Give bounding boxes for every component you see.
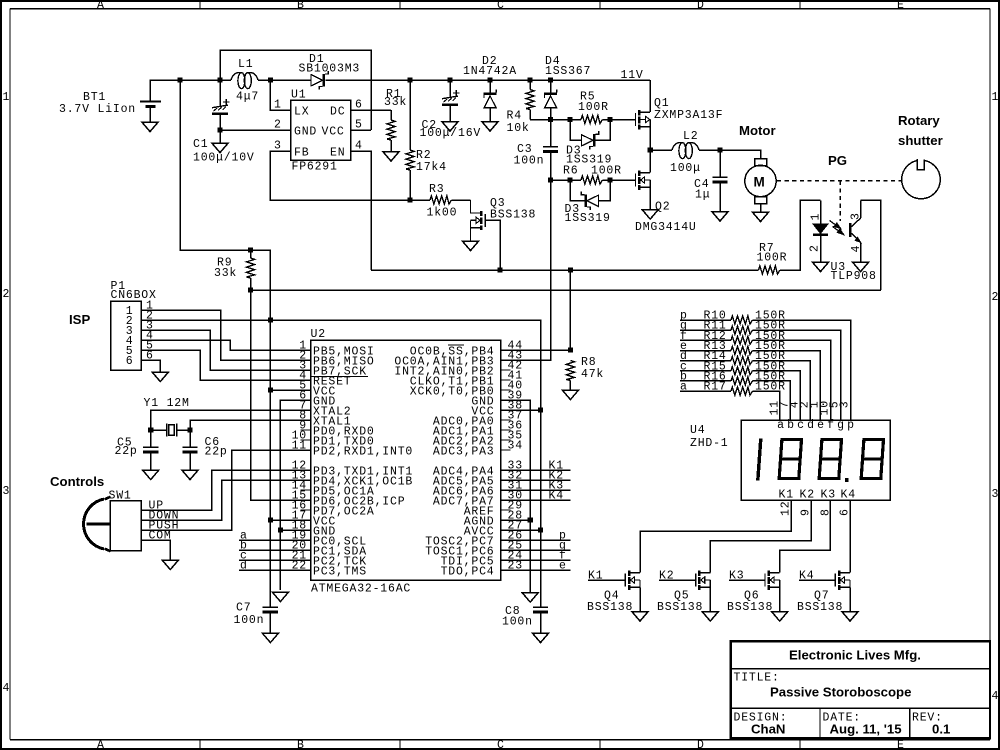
svg-text:LX: LX <box>294 106 309 119</box>
svg-text:e: e <box>559 560 567 573</box>
svg-text:4: 4 <box>992 690 1000 703</box>
svg-text:150R: 150R <box>755 381 786 394</box>
svg-text:4: 4 <box>850 245 863 253</box>
wire U1 pin2 <box>220 129 291 131</box>
wire U1 top loop <box>220 50 371 130</box>
wire DOWN to PD4 <box>141 480 311 520</box>
net label a <box>239 530 311 543</box>
resistor R1 <box>387 110 395 152</box>
svg-text:47k: 47k <box>581 368 604 381</box>
junction VCC P1 <box>268 317 273 322</box>
svg-text:DMG3414U: DMG3414U <box>635 221 697 234</box>
wire K4 <box>849 500 851 573</box>
svg-text:TITLE:: TITLE: <box>734 672 780 685</box>
IC U2 box <box>311 340 501 580</box>
wire K3 <box>780 500 831 573</box>
junction R9 bottom <box>248 287 253 292</box>
svg-text:d: d <box>240 560 248 573</box>
wire UP to INT1 <box>141 470 311 510</box>
svg-text:D: D <box>697 0 705 12</box>
ground C5 <box>143 470 159 480</box>
junction VCC38 <box>538 407 543 412</box>
junction L2 node <box>648 147 653 152</box>
wire Q2 source <box>649 187 651 209</box>
resistor R5 <box>551 116 636 124</box>
svg-text:VCC: VCC <box>322 126 345 139</box>
svg-text:R6: R6 <box>563 165 578 178</box>
svg-text:BSS138: BSS138 <box>797 601 843 614</box>
switch labels <box>149 500 180 543</box>
ground GND39 <box>522 593 538 603</box>
svg-text:Aug. 11, '15: Aug. 11, '15 <box>830 722 902 737</box>
transistor Q5 <box>659 571 710 612</box>
transistor Q6 <box>729 571 780 612</box>
svg-text:R3: R3 <box>429 183 444 196</box>
wire VCC38 down to C8 <box>501 410 541 607</box>
svg-text:K1: K1 <box>779 489 794 502</box>
svg-text:d: d <box>807 419 815 432</box>
svg-text:R4: R4 <box>507 110 522 123</box>
capacitor C5 <box>143 447 158 470</box>
P1 external pin numbers <box>146 300 154 363</box>
resistor R16 <box>680 370 790 420</box>
junction EN Q3gate <box>497 267 502 272</box>
wire AGND <box>501 519 531 521</box>
ground Q2 <box>642 210 658 220</box>
junction R8 PB4 <box>568 347 573 352</box>
svg-text:1SS367: 1SS367 <box>545 65 591 78</box>
U2 left pin numbers <box>292 340 307 573</box>
svg-text:ADC3,PA3: ADC3,PA3 <box>433 445 495 458</box>
svg-text:3: 3 <box>3 485 11 498</box>
svg-text:1N4742A: 1N4742A <box>463 65 517 78</box>
wire P1.6 GND <box>141 360 160 372</box>
U1 pin names <box>294 106 345 160</box>
svg-text:U2: U2 <box>311 328 326 341</box>
junction R5 right <box>607 117 612 122</box>
resistor R6 <box>551 176 636 184</box>
wire AVCC <box>501 529 541 531</box>
wire PG to ICP <box>251 290 311 500</box>
svg-text:D: D <box>697 739 705 750</box>
net label g <box>501 540 571 553</box>
svg-text:U4: U4 <box>690 424 705 437</box>
ground C1 <box>212 143 228 153</box>
svg-text:C: C <box>497 739 505 750</box>
motor M <box>745 159 776 213</box>
wire AIN1 sense <box>501 180 551 360</box>
net label K2 <box>501 470 571 483</box>
svg-text:3: 3 <box>839 401 852 409</box>
net label b <box>239 540 311 553</box>
wire VCC vertical <box>269 320 271 607</box>
svg-text:22p: 22p <box>205 446 228 459</box>
inductor L1 <box>231 72 258 88</box>
ground GND net <box>272 592 288 602</box>
wire XTAL2 <box>151 410 311 447</box>
ground U3 emitter <box>852 262 868 272</box>
svg-text:L2: L2 <box>683 130 698 143</box>
svg-text:A: A <box>97 739 105 750</box>
svg-text:BSS138: BSS138 <box>587 601 633 614</box>
connector P1 box <box>111 301 142 370</box>
svg-text:100n: 100n <box>514 155 545 168</box>
wire battery rail <box>150 80 650 112</box>
svg-text:Controls: Controls <box>50 474 104 489</box>
junction battery node <box>177 77 182 82</box>
display decimal point <box>845 478 849 482</box>
svg-text:5: 5 <box>355 119 363 132</box>
wire K2 <box>710 500 811 573</box>
capacitor C8 <box>533 607 548 633</box>
ground C7 <box>262 633 278 643</box>
diode D3 upper <box>570 120 610 150</box>
transistor Q2 <box>636 171 651 190</box>
svg-text:2: 2 <box>3 288 11 301</box>
svg-text:ISP: ISP <box>69 312 90 327</box>
svg-text:GND: GND <box>294 126 317 139</box>
capacitor C6 <box>182 447 197 470</box>
svg-text:p: p <box>847 419 855 432</box>
capacitor C1 <box>212 80 230 143</box>
IC U1 box <box>291 100 351 160</box>
junction C2 top <box>447 77 452 82</box>
transistor Q1 <box>636 110 651 129</box>
resistor R9 <box>247 250 255 290</box>
opto U3 light arrows <box>830 221 844 235</box>
svg-text:100μ: 100μ <box>670 162 701 175</box>
svg-text:17k4: 17k4 <box>416 161 447 174</box>
svg-text:BSS138: BSS138 <box>727 601 773 614</box>
wire P1.3 SCK <box>141 330 311 370</box>
overline SS <box>448 344 464 346</box>
svg-text:EN: EN <box>330 147 345 160</box>
wire PB4 to R8 <box>501 349 571 351</box>
junction R4 top <box>527 77 532 82</box>
junction R2 top <box>407 77 412 82</box>
ground Q6 <box>772 612 788 622</box>
net label K4 <box>501 490 571 503</box>
junction C4 node <box>717 147 722 152</box>
ground motor <box>752 212 768 222</box>
wire U1 pin4 EN <box>351 151 371 270</box>
ground C6 <box>182 470 198 480</box>
svg-text:PG: PG <box>828 153 847 168</box>
svg-text:C: C <box>497 0 505 12</box>
ground P1 <box>152 372 168 382</box>
svg-text:100μ/16V: 100μ/16V <box>420 127 482 140</box>
wire VCC riser <box>251 250 271 320</box>
resistor R10 <box>680 310 851 421</box>
ground COM <box>162 560 178 570</box>
svg-text:Electronic Lives Mfg.: Electronic Lives Mfg. <box>789 648 921 663</box>
svg-text:TDO,PC4: TDO,PC4 <box>441 565 495 578</box>
ground Q7 <box>842 612 858 622</box>
svg-text:b: b <box>787 419 795 432</box>
svg-text:4: 4 <box>355 140 363 153</box>
junction C1 gnd wire <box>217 127 222 132</box>
svg-text:3.7V LiIon: 3.7V LiIon <box>59 103 136 116</box>
svg-text:K3: K3 <box>821 489 836 502</box>
junction R5 left <box>567 117 572 122</box>
junction GND pin18 <box>278 527 283 532</box>
transistor Q3 <box>470 200 500 270</box>
ground U3 LED <box>812 262 828 272</box>
ground C8 <box>532 633 548 643</box>
svg-text:ZXMP3A13F: ZXMP3A13F <box>654 109 723 122</box>
junction AVCC <box>538 527 543 532</box>
capacitor C2 <box>442 80 460 122</box>
wire U1 pin1 <box>270 80 290 110</box>
svg-text:K2: K2 <box>659 570 674 583</box>
net label e <box>501 560 571 573</box>
svg-text:K2: K2 <box>800 489 815 502</box>
svg-text:1: 1 <box>992 91 1000 104</box>
svg-text:PD2,RXD1,INT0: PD2,RXD1,INT0 <box>313 445 413 458</box>
wire P1.1 MISO <box>141 310 311 360</box>
dashed shaft link <box>777 181 901 221</box>
display digit 8a <box>779 440 801 479</box>
svg-text:100μ/10V: 100μ/10V <box>193 152 255 165</box>
crystal Y1 <box>167 424 177 437</box>
resistor R15 <box>680 360 800 420</box>
resistor R8 <box>566 270 574 390</box>
U2 right pin stubs <box>501 350 511 570</box>
wire PUSH to INT0 <box>141 450 311 530</box>
capacitor C3 <box>543 120 558 181</box>
svg-text:g: g <box>837 419 845 432</box>
svg-text:E: E <box>897 739 905 750</box>
svg-text:K4: K4 <box>841 489 856 502</box>
svg-text:100n: 100n <box>234 614 265 627</box>
svg-text:33k: 33k <box>384 96 407 109</box>
ground C2 <box>442 122 458 132</box>
ground C4 <box>712 212 728 222</box>
resistor R3 <box>410 196 471 204</box>
diode D4 zener <box>544 80 557 120</box>
svg-text:Motor: Motor <box>739 123 776 138</box>
transistor Q7 <box>799 571 850 612</box>
diode D3 lower <box>570 180 610 210</box>
junction R9 top <box>248 247 253 252</box>
wire crystal right <box>177 429 191 431</box>
wire VCC row <box>270 320 540 410</box>
svg-text:Rotary: Rotary <box>898 113 940 128</box>
svg-text:ChaN: ChaN <box>751 722 785 737</box>
junction XTAL2 <box>148 427 153 432</box>
svg-text:2: 2 <box>274 119 282 132</box>
svg-text:100n: 100n <box>502 616 533 629</box>
U2 right pin numbers <box>508 340 523 573</box>
wire P1.4 MOSI <box>141 340 311 350</box>
svg-text:PC3,TMS: PC3,TMS <box>313 565 367 578</box>
wire P1.5 RESET <box>141 350 311 380</box>
junction R6 left <box>567 177 572 182</box>
overline PB7 SCK underline <box>312 375 369 377</box>
rotary shutter <box>902 158 941 198</box>
junction R6 right <box>607 177 612 182</box>
ground battery <box>142 122 158 132</box>
svg-text:1k00: 1k00 <box>427 207 458 220</box>
svg-text:22p: 22p <box>115 445 138 458</box>
resistor R12 <box>680 330 831 420</box>
wire P1.2 VCC <box>141 319 270 321</box>
svg-text:BSS138: BSS138 <box>657 601 703 614</box>
svg-text:ATMEGA32-16AC: ATMEGA32-16AC <box>311 583 411 596</box>
svg-text:K4: K4 <box>799 570 814 583</box>
wire GND pin6 vertical <box>280 400 310 590</box>
svg-text:e: e <box>817 419 825 432</box>
junction R2 bottom FB <box>407 197 412 202</box>
pin number U3.1 <box>810 213 823 221</box>
svg-text:C7: C7 <box>236 602 251 615</box>
svg-text:ZHD-1: ZHD-1 <box>690 437 729 450</box>
svg-text:FP6291: FP6291 <box>292 161 338 174</box>
svg-text:0.1: 0.1 <box>932 722 950 737</box>
wire VCC pin5 <box>270 389 310 391</box>
wire GND39 down <box>501 400 531 593</box>
junction XTAL1 <box>187 427 192 432</box>
svg-text:Passive Storoboscope: Passive Storoboscope <box>770 685 911 700</box>
svg-text:6: 6 <box>126 355 134 368</box>
svg-text:U1: U1 <box>291 89 306 102</box>
svg-text:1: 1 <box>274 99 282 112</box>
svg-text:100R: 100R <box>591 165 622 178</box>
resistor R4 <box>526 80 551 120</box>
diode D1 schottky <box>311 71 328 90</box>
opto U3 LED <box>813 200 828 262</box>
display U4 pin numbers top <box>769 400 852 415</box>
svg-text:a: a <box>777 419 785 432</box>
net label f <box>501 550 571 563</box>
wire motor feed <box>720 150 761 159</box>
svg-text:1: 1 <box>810 213 823 221</box>
pin number U3.3 <box>849 212 862 220</box>
display digit 1 <box>758 439 761 481</box>
svg-text:34: 34 <box>508 440 523 453</box>
svg-text:Y1 12M: Y1 12M <box>144 397 190 410</box>
svg-text:4μ7: 4μ7 <box>236 91 259 104</box>
svg-text:100R: 100R <box>578 101 609 114</box>
svg-text:M: M <box>754 175 765 190</box>
display digit 8c <box>861 440 883 479</box>
wire COM <box>141 540 170 560</box>
capacitor C7 <box>263 607 278 633</box>
ground Q3 <box>462 241 478 251</box>
svg-text:a: a <box>680 381 688 394</box>
svg-text:100R: 100R <box>757 252 788 265</box>
svg-text:B: B <box>297 739 305 750</box>
svg-text:1SS319: 1SS319 <box>565 212 611 225</box>
svg-text:A: A <box>97 0 105 12</box>
inductor L2 <box>650 142 720 158</box>
U2 right pin names <box>394 345 494 578</box>
junction D4 top <box>548 77 553 82</box>
display segment letters <box>777 419 855 432</box>
display U4 pin numbers bottom <box>779 501 851 516</box>
switch SW1 paddle <box>84 497 111 551</box>
display digit 8b <box>819 440 841 479</box>
junction VCC pin17 <box>268 517 273 522</box>
pin number U3.4 <box>850 245 863 253</box>
svg-text:L1: L1 <box>238 58 253 71</box>
transistor Q4 <box>588 571 640 612</box>
junction C1 node <box>217 77 222 82</box>
junction D2 top <box>487 77 492 82</box>
svg-text:K3: K3 <box>729 570 744 583</box>
svg-text:DC: DC <box>330 106 345 119</box>
diode D2 zener <box>484 80 497 122</box>
svg-text:SB1003M3: SB1003M3 <box>299 63 361 76</box>
resistor R17 <box>680 381 786 420</box>
display K labels <box>779 489 856 502</box>
net label p <box>501 530 571 543</box>
wire VCC pin17 <box>270 519 310 521</box>
wire K1 <box>640 500 791 573</box>
svg-text:c: c <box>797 419 805 432</box>
svg-text:K4: K4 <box>549 490 564 503</box>
resistor R13 <box>680 340 820 420</box>
svg-text:4: 4 <box>3 682 11 695</box>
switch SW1 box <box>110 501 141 551</box>
svg-text:BSS138: BSS138 <box>490 209 536 222</box>
junction EN R8 <box>568 267 573 272</box>
svg-text:R17: R17 <box>704 381 727 394</box>
capacitor C4 <box>712 150 727 212</box>
svg-text:E: E <box>897 0 905 12</box>
svg-text:6: 6 <box>355 99 363 112</box>
svg-text:3: 3 <box>274 140 282 153</box>
wire U1 pin6 DC <box>351 109 391 111</box>
ground R8 <box>562 390 578 400</box>
ground Q5 <box>702 612 718 622</box>
svg-text:f: f <box>827 419 835 432</box>
svg-text:K1: K1 <box>588 570 603 583</box>
svg-text:2: 2 <box>992 291 1000 304</box>
svg-text:shutter: shutter <box>898 133 943 148</box>
opto U3 phototransistor <box>850 200 880 290</box>
net label d <box>239 560 311 573</box>
ground Q4 <box>632 612 648 622</box>
svg-text:33k: 33k <box>214 267 237 280</box>
wire Q1-Q2 rail <box>649 127 651 173</box>
junction C3 bottom <box>548 177 553 182</box>
net label K1 <box>501 460 571 473</box>
svg-text:1: 1 <box>3 91 11 104</box>
U2 left pin names <box>313 345 413 578</box>
resistor R7 <box>759 200 821 274</box>
wire crystal left <box>151 429 167 431</box>
svg-text:C1: C1 <box>193 138 208 151</box>
ground R1 <box>383 152 399 162</box>
net label c <box>239 550 311 563</box>
svg-text:1μ: 1μ <box>695 189 710 202</box>
wire XTAL1 <box>190 420 311 447</box>
svg-text:3: 3 <box>992 488 1000 501</box>
resistor R2 <box>406 80 414 200</box>
svg-text:2: 2 <box>809 244 822 252</box>
junction D4 bottom <box>548 117 553 122</box>
svg-text:TLP908: TLP908 <box>831 270 877 283</box>
resistor R11 <box>680 320 841 420</box>
net label K3 <box>501 480 571 493</box>
svg-text:FB: FB <box>294 147 309 160</box>
wire PG line <box>251 289 881 291</box>
svg-text:11V: 11V <box>621 69 644 82</box>
wire U1 pin3 FB <box>270 151 410 200</box>
svg-text:10k: 10k <box>507 122 530 135</box>
ground D2 <box>482 122 498 132</box>
